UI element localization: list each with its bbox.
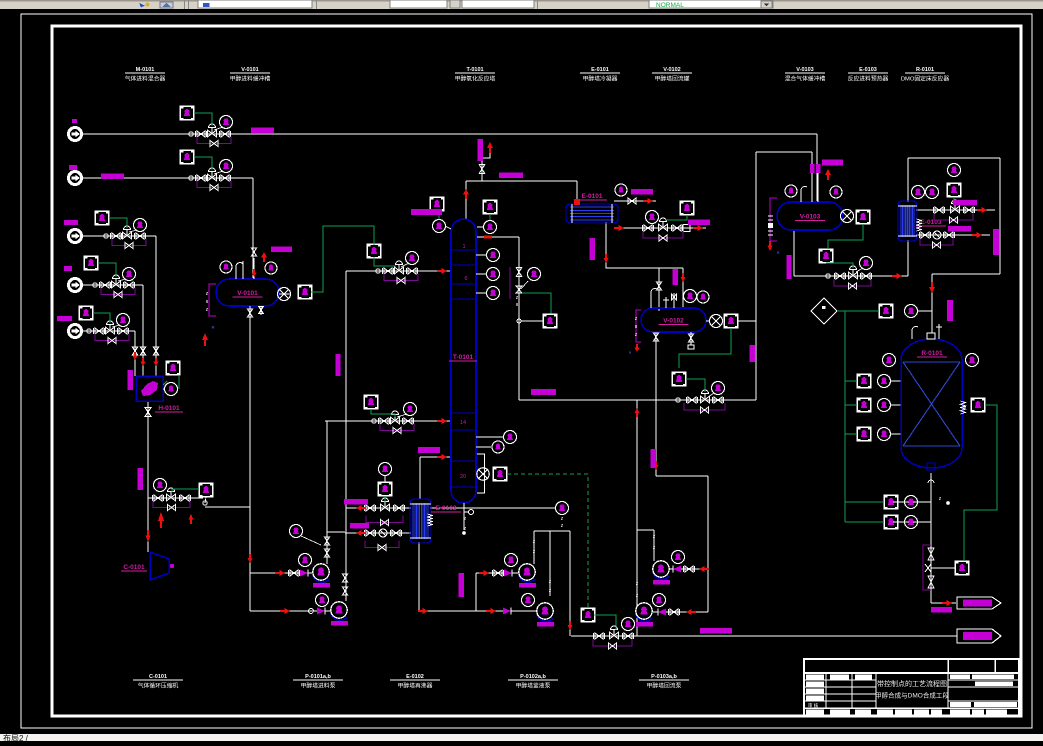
svg-text:M-0101: M-0101 <box>136 67 155 73</box>
green reactor right net <box>964 405 997 561</box>
title block <box>804 659 1019 716</box>
valve station feed 5 <box>87 329 91 333</box>
V-0101 top fittings <box>220 261 232 273</box>
P-0101 suction line 2 y=611 <box>250 610 331 612</box>
R-0101 top hook and riser <box>912 326 918 339</box>
side draw signal to analyzer square <box>522 293 551 314</box>
pump suction valves P-0101 <box>275 572 281 574</box>
V-0103 analyzer signal loop <box>828 224 863 249</box>
toolbar combo field 3 <box>462 0 534 8</box>
reactor R-0101 <box>901 339 962 468</box>
column lower right instruments <box>476 436 503 438</box>
svg-text:甲醇塔进料泵: 甲醇塔进料泵 <box>301 682 336 690</box>
svg-text:R-0101: R-0101 <box>921 350 943 357</box>
toolbar icon blue arrow <box>139 3 145 8</box>
V-0102 right outlet drop x=753 <box>738 320 756 322</box>
svg-text:V-0103: V-0103 <box>800 214 821 221</box>
svg-text:混合气体缓冲槽: 混合气体缓冲槽 <box>785 75 826 83</box>
tray 14 feed line y=421 <box>325 420 450 422</box>
toolbar separators <box>184 0 185 9</box>
svg-text:6: 6 <box>464 276 467 282</box>
feed connector 2 <box>69 172 82 185</box>
valve station E-0103 condensate <box>921 232 929 238</box>
E-0102 bottom drop x=419 <box>418 542 420 611</box>
toolbar combo field 4 linetype <box>649 0 773 8</box>
off-page pennant lower <box>957 629 1001 643</box>
pump P-0102b <box>537 615 553 621</box>
overhead relief fittings <box>479 165 485 174</box>
column top instruments right pair <box>483 200 497 214</box>
reboiler return y=457 <box>420 456 450 458</box>
reboiler return tag <box>418 447 440 453</box>
svg-text:T-0101: T-0101 <box>453 354 474 361</box>
svg-text:甲醇进料缓冲槽: 甲醇进料缓冲槽 <box>230 75 271 83</box>
P-0102 discharge drop x=570 to export line <box>569 531 571 636</box>
H-0101 gas mixer/cooler <box>136 376 163 401</box>
green long loop column analyzer to export station <box>507 474 588 608</box>
H-0101 inlet riser valves <box>153 347 159 355</box>
V-0102 bottom outlet x=656 <box>655 332 657 476</box>
toolbar strip (cropped app toolbar) <box>0 0 1043 9</box>
svg-text:反应进料预热器: 反应进料预热器 <box>848 75 889 83</box>
P-0101 suction line 1 y=573 <box>250 572 312 574</box>
E-0103 steam line y=210 <box>916 209 995 211</box>
P-0102 discharge header y=531 <box>534 530 570 532</box>
valve station compressor discharge <box>154 495 162 501</box>
red arrows misc <box>155 358 157 363</box>
V-0103 to E-0103 line y=276 <box>794 275 908 277</box>
column overhead line y=181 <box>466 180 577 182</box>
E-0103 riser x=908 <box>907 240 909 276</box>
V-0102 outlet mixer and square <box>706 320 710 322</box>
svg-text:审 核: 审 核 <box>808 702 819 709</box>
valve station feed 3 <box>104 234 108 238</box>
column right side instruments <box>476 254 486 256</box>
column bottoms dot <box>462 531 466 535</box>
stream tags magenta <box>251 127 274 133</box>
reactor feed loop top y=158 <box>908 157 1000 159</box>
svg-text:✕: ✕ <box>776 250 779 255</box>
reflux/product line y=400 <box>519 399 756 401</box>
column level bracket <box>477 454 485 493</box>
reactor inlet valve pair <box>879 304 893 318</box>
toolbar combo field 2 <box>390 0 447 8</box>
V-0103 bottom outlet x=794 <box>793 230 795 276</box>
transfer y=476 to x=708 <box>656 475 708 477</box>
H-0101 bottom valve <box>145 408 151 417</box>
svg-text:V-0102: V-0102 <box>663 318 684 325</box>
feed connector 1 <box>69 128 82 141</box>
red tick on side draw <box>484 236 492 239</box>
preheater E-0103 <box>898 201 917 241</box>
P-0103 suction line y=612 <box>653 611 708 613</box>
valve station reflux line y=400 <box>676 398 680 402</box>
valve pair line into reactor riser y=311 <box>918 310 932 312</box>
reactor side instrument rows <box>857 374 871 388</box>
column top instruments left pair <box>430 197 444 211</box>
E-0102 shell line y=508 handled above; lower line y=533 <box>345 532 411 534</box>
reactor bottom outlet x=931 <box>930 473 932 603</box>
column side draw y=237 <box>477 236 519 238</box>
feed line 2 (methanol) y=178 <box>82 177 253 179</box>
P-0103 suction line y=569 <box>669 568 708 570</box>
valve station E-0101 coolant <box>628 198 636 204</box>
column feed arrows <box>437 270 443 272</box>
E-0102 shell inlet line y=508 <box>346 507 411 509</box>
feed line 4 y=285 <box>82 284 143 286</box>
column bottoms hook <box>463 503 465 508</box>
svg-text:H-0101: H-0101 <box>158 405 180 412</box>
feed connector 4 <box>69 279 82 292</box>
E-0101 outlet to V-0102 <box>606 222 683 268</box>
H-0101 instruments <box>166 361 180 375</box>
feed connector 3 <box>69 230 82 243</box>
svg-text:E-0101: E-0101 <box>591 67 609 73</box>
valve station V-0103 outlet <box>826 274 830 278</box>
svg-text:1: 1 <box>462 244 465 250</box>
valve station E-0103 steam <box>935 207 943 213</box>
green diamond interlock net <box>837 310 879 312</box>
stub from side draw to analyzer <box>517 319 521 323</box>
toolbar icon cube <box>160 2 173 8</box>
svg-text:P-0101a,b: P-0101a,b <box>305 674 331 680</box>
pump suction valves P-0102 <box>479 572 485 574</box>
svg-text:气体进料混合器: 气体进料混合器 <box>125 75 166 83</box>
side draw fittings on x=519 <box>516 268 522 277</box>
reactor level stub lines <box>891 501 931 503</box>
jog to pump header <box>203 501 207 505</box>
reactor bottom instrument rows <box>884 495 898 509</box>
svg-text:甲醇合成与DMO合成工段: 甲醇合成与DMO合成工段 <box>875 691 949 700</box>
valve station tray6 feed <box>376 269 380 273</box>
compressor discharge line y=498 <box>148 497 203 499</box>
reactor bottom manifold <box>928 548 934 560</box>
svg-text:✕: ✕ <box>628 350 631 355</box>
vessel V-0101 methanol feed drum <box>216 279 279 306</box>
V-0102 level bracket <box>636 310 641 342</box>
loop right x=1000 <box>999 158 1001 274</box>
V-0101 outlet mixer circle <box>279 293 291 295</box>
P-0101 suction header x=250 <box>249 306 251 611</box>
pump instruments <box>299 554 312 567</box>
svg-text:C-0101: C-0101 <box>149 674 167 680</box>
reactor inlet x=932 <box>931 274 933 333</box>
reactor bottoms fittings <box>928 480 934 487</box>
compressor C-0101 <box>150 552 169 580</box>
off-page pennant upper <box>957 597 1001 609</box>
green loop V-0101 analyzer to tray6 station <box>311 226 374 292</box>
pump P-0102 suction y=611 <box>419 610 536 612</box>
V-0103 outlet mixer + square <box>841 210 854 223</box>
pump P-0102a <box>519 576 535 582</box>
svg-text:DMO固定床反应器: DMO固定床反应器 <box>901 75 950 83</box>
column T-0101 <box>451 219 476 503</box>
reactor side stub lines <box>891 380 901 382</box>
pump P-0101b <box>331 614 347 620</box>
header x=756 from gas line to reflux line <box>755 152 757 400</box>
valve station tray14 feed <box>372 419 376 423</box>
svg-text:气体循环压缩机: 气体循环压缩机 <box>138 682 179 690</box>
reboiler E-0102 <box>410 499 431 543</box>
V-0103 top fittings <box>785 185 797 197</box>
valve station feed 2 <box>189 176 193 180</box>
reactor outlet elbow to pennant <box>931 602 956 604</box>
side draw vertical x=519 <box>518 237 520 400</box>
E-0103 condensate line y=235 <box>916 234 990 236</box>
side draw level bracket magenta <box>509 267 511 299</box>
svg-text:E-0102: E-0102 <box>436 505 457 512</box>
vessel V-0103 gas buffer drum <box>777 202 843 230</box>
tray 6 feed line y=271 <box>346 270 450 272</box>
svg-text:甲醇塔回流罐: 甲醇塔回流罐 <box>655 75 690 83</box>
svg-text:V-0101: V-0101 <box>241 67 258 73</box>
svg-text:带控制点的工艺流程图: 带控制点的工艺流程图 <box>877 679 947 688</box>
svg-text:NORMAL: NORMAL <box>656 2 684 9</box>
svg-text:20: 20 <box>460 474 466 480</box>
feed line 5 y=331 <box>82 330 135 332</box>
toolbar combo field 1 <box>198 0 312 8</box>
svg-text:14: 14 <box>460 420 466 426</box>
column bottom analyzers <box>476 473 477 475</box>
condenser E-0101 <box>566 204 618 223</box>
R-0101 right coil + square <box>961 401 966 414</box>
svg-text:E-0102: E-0102 <box>406 674 424 680</box>
P-0101 discharge risers <box>326 421 328 564</box>
svg-text:V-0103: V-0103 <box>796 67 813 73</box>
pump suction valves P-0103 <box>704 568 710 570</box>
feed line 1 (gas) y=134 <box>82 133 817 135</box>
pump discharge fittings <box>324 537 329 545</box>
svg-text:T-0101: T-0101 <box>466 67 483 73</box>
P-0103 discharge header y=530 <box>637 529 654 531</box>
H-0101 outlet to compressor <box>147 401 149 552</box>
green H-0101 <box>163 381 167 385</box>
valve station bottom export <box>595 633 603 639</box>
feed riser x=346 from pumps <box>345 271 347 601</box>
overhead relief riser <box>482 146 490 181</box>
valve station E-0102 lower <box>366 530 374 536</box>
filter diamond <box>811 298 837 324</box>
svg-text:甲醇塔再沸器: 甲醇塔再沸器 <box>398 682 433 690</box>
riser into V-0103 <box>816 134 818 202</box>
riser into V-0101 <box>252 178 254 279</box>
model/layout tab strip <box>0 734 1043 741</box>
svg-text:甲醇氧化反应塔: 甲醇氧化反应塔 <box>455 75 496 83</box>
V-0101 drain valves <box>249 306 251 320</box>
svg-text:甲醇塔冷凝器: 甲醇塔冷凝器 <box>583 75 618 83</box>
feed stream tags (small) <box>72 119 77 123</box>
V-0103 level bracket <box>770 198 777 241</box>
bottom export line y=636 <box>571 635 957 637</box>
R-0101 side instruments <box>883 354 896 367</box>
V-0101 level bracket <box>209 284 216 316</box>
V-0101 analyzer square <box>298 285 312 299</box>
svg-text:P-0102a,b: P-0102a,b <box>520 674 546 680</box>
svg-text:P-0103a,b: P-0103a,b <box>651 674 677 680</box>
loop bottom y=274 <box>932 273 1000 275</box>
pump P-0103a <box>653 573 669 579</box>
valve station E-0101 tempered <box>644 225 652 231</box>
pump P-0101a <box>313 576 329 582</box>
svg-text:✕: ✕ <box>211 325 215 330</box>
R-0101 top nozzle <box>927 333 935 339</box>
svg-text:甲醇塔回流泵: 甲醇塔回流泵 <box>647 682 682 690</box>
svg-text:E-0103: E-0103 <box>859 67 877 73</box>
product draw x=637 to export <box>636 400 638 636</box>
valve station feed 1 <box>189 132 193 136</box>
pump P-0103b <box>636 615 652 621</box>
feed line 3 y=236 <box>82 235 156 237</box>
svg-text:C-0101: C-0101 <box>123 564 145 571</box>
valve station feed 4 <box>93 283 97 287</box>
svg-text:布局2 /: 布局2 / <box>3 733 29 741</box>
E-0101 tempered water line y=228 <box>614 227 706 229</box>
svg-text:甲醇塔釜液泵: 甲醇塔釜液泵 <box>516 682 551 690</box>
V-0102 bottom drains <box>653 333 658 341</box>
svg-text:R-0101: R-0101 <box>916 67 934 73</box>
svg-text:E-0101: E-0101 <box>582 193 603 200</box>
E-0101 coolant line top <box>614 200 656 202</box>
feed connector 5 <box>69 325 82 338</box>
green V-0102 analyzer drop <box>679 328 731 368</box>
R-0101 bottom nozzle <box>927 463 935 470</box>
svg-text:V-0102: V-0102 <box>663 67 680 73</box>
column bottoms stub <box>463 503 465 530</box>
pointer line to interlock square <box>931 567 955 569</box>
vessel V-0102 reflux drum <box>641 308 706 332</box>
line continues right of E-0102 to instrument <box>430 507 555 509</box>
V-0102 top fittings <box>651 288 657 308</box>
valve station E-0102 upper <box>366 505 374 511</box>
branch x=476 up to y=573 <box>475 573 477 611</box>
svg-text:V-0101: V-0101 <box>237 290 258 297</box>
